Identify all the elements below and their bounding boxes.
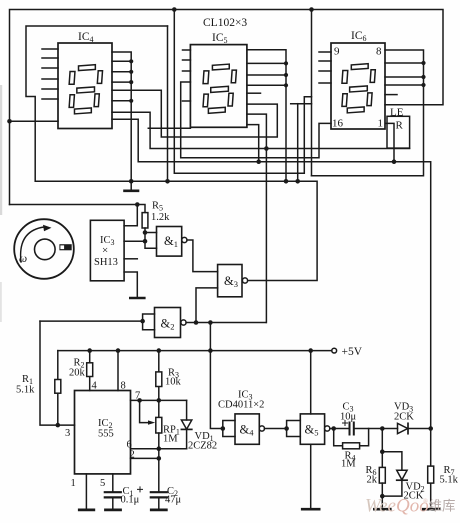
wire B4: IC5 left pin routed down, bus y=157.7, up to IC6 pin16 — [181, 82, 331, 158]
svg-text:1M: 1M — [341, 459, 356, 470]
wire gate2 input bracket — [143, 314, 155, 330]
wire R3 column — [158, 351, 160, 401]
wire gate5 supply from rail — [310, 351, 312, 414]
wire 555 pin8 column — [117, 351, 119, 391]
svg-text:1: 1 — [378, 118, 384, 130]
node dot IC4 pin 2 — [129, 59, 133, 63]
wire 555 pin3 line from gate2 input column to 555 — [40, 321, 75, 425]
svg-text:LE: LE — [390, 107, 404, 119]
wire gate2 input feed from 555 pin3 column — [40, 320, 143, 322]
wire +5V rail — [58, 350, 332, 352]
svg-text:IC4: IC4 — [78, 31, 94, 44]
svg-text:×: × — [102, 245, 108, 257]
sensor rotation arrow — [21, 227, 44, 262]
node dot pin2 to C2 column — [157, 456, 162, 461]
ground for R7 — [423, 508, 439, 511]
wire VD2 branch top — [382, 452, 402, 470]
wire IC5 lower right pin down to bus B5 — [247, 125, 259, 162]
svg-text:2CK: 2CK — [394, 412, 414, 423]
wire IC4 right pin 4 to column V_A — [112, 81, 131, 83]
wire IC3 pin d down to ground — [124, 272, 137, 298]
svg-text:&1: &1 — [164, 234, 178, 249]
wire R5 bottom to gate1 input node — [144, 228, 146, 233]
svg-text:1: 1 — [71, 478, 76, 489]
svg-text:&5: &5 — [305, 423, 319, 438]
svg-text:R: R — [396, 120, 404, 132]
IC3 SH13 box — [90, 220, 124, 280]
svg-text:2CZ82: 2CZ82 — [188, 441, 217, 452]
svg-text:3: 3 — [65, 428, 70, 439]
svg-text:IC5: IC5 — [212, 32, 228, 45]
display IC4 box — [58, 43, 112, 129]
wire feed line from left vertical to R5 — [10, 204, 138, 206]
node dot H3 top of V5 — [264, 146, 269, 151]
node dot R5 feed — [135, 202, 140, 207]
wire from left vertical to IC4 lowest left pin — [10, 120, 59, 122]
wire RP1 bottom to pin6 line — [158, 433, 160, 449]
wire pin line stub near IC6 — [291, 103, 312, 105]
wire gate5 ground column — [310, 444, 312, 508]
scan edge artifact left — [0, 85, 2, 215]
ground for IC3 — [130, 297, 144, 300]
gate4 input bracket — [223, 421, 235, 437]
node dot RP1 bottom on pin6 line — [157, 446, 162, 451]
svg-text:20k: 20k — [69, 368, 86, 379]
svg-text:4: 4 — [92, 381, 98, 392]
ground for gate5 — [302, 508, 319, 511]
wire gate5 output to C3 — [330, 428, 349, 430]
diode VD3 bar — [407, 423, 409, 433]
svg-text:5: 5 — [100, 478, 105, 489]
ground for C2 — [151, 508, 166, 511]
node dot bus B8 at x=131.2 with ground stem — [129, 179, 134, 184]
wire VD2 branch bottom — [382, 481, 402, 496]
wire R7 column — [430, 429, 432, 509]
wire B7: V2 column across bus y=175.8 up to IC6 pin 8 — [312, 50, 424, 176]
diode VD1 triangle — [181, 420, 191, 429]
svg-text:1M: 1M — [163, 434, 178, 445]
node dot VD2 branch top — [380, 449, 385, 454]
wire VD3 to right column node — [408, 428, 431, 430]
svg-text:16: 16 — [332, 118, 344, 130]
node dot IC6 pin d — [421, 83, 425, 87]
wire C2 to ground — [158, 497, 160, 509]
wire gate1 output to gate3 input a — [187, 240, 218, 272]
wire C3 to VD3 node — [354, 428, 398, 430]
capacitor C3 plates — [349, 423, 351, 435]
node junction dot on top bus feeding V1 — [172, 7, 177, 12]
nand gate U4 box — [235, 414, 259, 444]
node dot IC5 pin 4 — [284, 83, 288, 87]
svg-text:8: 8 — [121, 381, 126, 392]
node dot R4 branch — [331, 426, 336, 431]
wire IC5 right stub — [247, 92, 261, 94]
display IC5 digit 8 — [201, 64, 237, 113]
node dot IC6 pin b — [421, 61, 425, 65]
C3 polarity plus — [343, 421, 348, 426]
wire IC4 pin column V_A from top-right pin down to bus B8 — [112, 52, 131, 181]
resistor R6 body — [379, 467, 385, 483]
wire IC3 pin b to gate1 input node — [124, 240, 145, 242]
node junction dot on left vertical at IC4 pin row — [7, 119, 12, 124]
node dot pin7 arrow branch — [137, 398, 142, 403]
node dot B5 from IC5 lower pin — [256, 159, 261, 164]
wire R1 column from rail left end down through resistor to 555 pin3 line — [57, 351, 59, 426]
wire inner loop from IC4 area: top bus at y=26, left jog, long bus B8 to gate 3 output column — [26, 26, 317, 281]
sensor wheel outer circle — [14, 219, 74, 279]
display IC5 left pin stubs — [183, 50, 191, 101]
wire IC5 right pin 4 to V3 — [247, 84, 286, 86]
wire R6 top lead from VD3 node line — [381, 429, 383, 468]
svg-text:9: 9 — [334, 46, 340, 58]
capacitor C2 plates — [151, 491, 167, 493]
wire 555 pin2 line — [131, 457, 159, 459]
svg-text:ω: ω — [19, 253, 27, 265]
wire R2 column — [89, 351, 91, 391]
C2 polarity plus — [138, 487, 143, 492]
gate2 output bubble — [181, 320, 186, 325]
gate5 input bracket — [287, 421, 301, 437]
node dot VD2 branch bottom — [380, 494, 385, 499]
node dot rail to 555 pin8 — [116, 348, 121, 353]
+5V terminal circle — [332, 348, 337, 353]
node dot IC4 pin 3 — [129, 70, 133, 74]
diode VD1 bar — [181, 428, 191, 430]
wire R4 parallel loop — [334, 429, 369, 446]
resistor R2 body — [87, 363, 93, 377]
wire IC4 right pin 6 to column V_A — [112, 100, 131, 102]
svg-text:0.1μ: 0.1μ — [121, 495, 140, 506]
diode VD2 bar — [397, 479, 407, 481]
svg-text:5.1k: 5.1k — [16, 385, 35, 396]
node dot IC6 pin c — [421, 75, 425, 79]
diode VD1 column — [186, 400, 188, 448]
nand gate U1 box — [157, 227, 182, 257]
RP1 wiper arrow — [140, 400, 150, 422]
wire IC5 right pin 3 to V3 — [247, 74, 286, 76]
svg-text:CD4011×2: CD4011×2 — [218, 400, 264, 411]
wire IC3 pin a up to node on R5 feed line — [124, 205, 137, 226]
svg-text:&3: &3 — [224, 274, 238, 289]
gate1 output bubble — [182, 237, 187, 242]
svg-text:&4: &4 — [240, 423, 255, 438]
resistor R4 body — [343, 443, 360, 449]
wire W1: IC4 right pin 5 routed down along y=137 and up into IC5 left-side pin — [112, 90, 277, 137]
ground for R6 — [374, 508, 390, 511]
display IC4 digit 8 — [67, 65, 103, 114]
wire 555 pin5 to C1 — [112, 474, 114, 492]
wire IC4 right pin 2 to column V_A — [112, 60, 131, 62]
svg-text:555: 555 — [98, 429, 114, 440]
diode VD2 triangle — [397, 470, 407, 480]
gate3 output bubble — [242, 278, 247, 283]
latch R box beside IC6 — [387, 116, 410, 148]
svg-text:&2: &2 — [161, 317, 175, 332]
svg-text:IC6: IC6 — [351, 30, 367, 43]
svg-text:R5: R5 — [152, 201, 163, 213]
wire 555 pin1 to ground — [85, 474, 87, 510]
node dot B5 from IC6 pin1 — [392, 159, 397, 164]
node dot pin7 RP1 top — [157, 398, 162, 403]
node dot gate1 input b — [143, 239, 148, 244]
nand gate U5 box — [300, 414, 324, 444]
display IC4 left pin stubs — [42, 49, 58, 99]
node dot gate2 output branch down to gate4 — [208, 320, 213, 325]
wire 555 pin6 line — [131, 448, 187, 450]
wire gate4 output to gate5 input — [265, 428, 287, 430]
sensor wheel hub circle — [35, 239, 56, 260]
potentiometer RP1 body — [156, 417, 162, 433]
node dot rail to R2 — [87, 348, 92, 353]
wire 555 pin7 line to VD1 column — [131, 399, 187, 401]
node dot IC5 pin 3 — [284, 73, 288, 77]
node dot IC4 pin 6 — [129, 99, 133, 103]
timer 555 box — [75, 391, 131, 474]
node dot gate2 output branch to gate3 — [194, 320, 199, 325]
wire IC5 right pin 2 to V3 — [247, 62, 286, 64]
resistor R3 body — [156, 372, 162, 387]
node dot rail to gate5 supply — [308, 348, 313, 353]
wire column pin6-pin2-C2 — [158, 449, 160, 493]
wire gate2 output line to V5 corner — [186, 322, 266, 324]
nand gate U3 box — [218, 265, 242, 297]
wire IC4 right pin 3 to column V_A — [112, 71, 131, 73]
wire L2: top bus V1 down to bus y=173.2 and staircase up toward IC6 — [174, 10, 311, 174]
wire C1 to ground — [112, 497, 114, 509]
svg-text:CL102×3: CL102×3 — [203, 17, 247, 29]
node dot rail to R3 — [157, 348, 162, 353]
wire H3: IC4 right pin 7 routed down to bus y=148.5 across to latch R box — [112, 112, 410, 148]
display IC6 box — [331, 43, 385, 129]
node dot gate4 input — [221, 426, 226, 431]
wire V5: from IC5 right pin down through H3 to gate 2 output line — [247, 114, 266, 322]
svg-text:10k: 10k — [165, 377, 182, 388]
node dot R1 bottom on pin3 wire — [56, 423, 61, 428]
svg-text:+5V: +5V — [342, 346, 363, 358]
svg-text:®: ® — [423, 498, 428, 505]
resistor R5 body — [142, 213, 148, 228]
svg-text:维库: 维库 — [429, 499, 456, 514]
svg-text:1.2k: 1.2k — [151, 212, 170, 223]
svg-text:WeeQoo: WeeQoo — [365, 496, 429, 517]
svg-text:7: 7 — [135, 391, 140, 402]
diode VD3 triangle — [398, 423, 408, 433]
wire R5 feed line end into resistor top — [137, 205, 145, 213]
node dot V3 on bus B8 — [284, 179, 289, 184]
wire link between IC4 and IC5 bottom corners — [148, 127, 190, 129]
node junction dot on top bus feeding V2 — [309, 7, 314, 12]
svg-text:8: 8 — [376, 46, 382, 58]
svg-text:2k: 2k — [367, 475, 378, 486]
svg-text:10μ: 10μ — [340, 412, 357, 423]
node dot VD3 output on right column — [428, 426, 433, 431]
display IC6 digit 8 — [340, 64, 376, 113]
svg-text:5.1k: 5.1k — [440, 475, 459, 486]
node dot gate5 input — [284, 426, 289, 431]
node dot on +5V rail crossing — [208, 348, 213, 353]
node dot IC5 pin 2 — [284, 61, 288, 65]
display IC6 left pin stubs — [319, 52, 331, 83]
wire branch down to gate4 input crossing +5V rail — [210, 323, 222, 429]
wire outer loop: left vertical, top bus, right vertical down to LE pin of IC6 — [10, 10, 444, 205]
wire B5: IC4 right pin 8 routed down to bus y=161.7 then right and down to diode VD3 node — [112, 119, 431, 428]
node dot after C3 — [380, 426, 385, 431]
wire IC3 pin c stub — [124, 258, 137, 260]
wire V3: IC5 top right pin down to bus B8 — [247, 50, 286, 182]
wire W2 vertical from pin line down to bus B8 — [297, 104, 299, 182]
display IC5 box — [190, 45, 247, 128]
wire IC6 right pin bus dots — [385, 62, 424, 64]
node dot gate1 input a — [143, 230, 148, 235]
gate4 output bubble — [259, 426, 264, 431]
resistor R1 body — [55, 380, 61, 394]
ground for C1 — [106, 508, 121, 511]
gate5 output bubble — [325, 426, 330, 431]
capacitor C1 plates — [105, 491, 121, 493]
wire IC6 pin1 to bus B5 — [386, 123, 394, 161]
nand gate U2 box — [155, 308, 181, 338]
ground below bus B8 — [130, 181, 132, 190]
svg-text:47μ: 47μ — [165, 495, 182, 506]
node dot W2 on bus B8 — [295, 179, 300, 184]
svg-text:SH13: SH13 — [94, 257, 118, 268]
wire R6 bottom to ground — [381, 483, 383, 509]
resistor R7 body — [428, 466, 434, 483]
wire RP1 top lead — [158, 400, 160, 417]
wire vertical from inner loop top down to bus B8 — [167, 26, 169, 181]
wire branch up to gate3 input b — [196, 288, 218, 323]
svg-text:2: 2 — [130, 450, 135, 461]
wire gate1 input bracket — [145, 233, 157, 249]
wire V2 from top bus down to bus B7 toward IC6 pin column — [311, 10, 313, 176]
node dot IC4 pin 4 — [129, 80, 133, 84]
ground for 555 pin1 — [79, 508, 94, 511]
node dot gate2 input bracket — [140, 319, 145, 324]
node dot bus B8 at x=167.5 — [165, 179, 170, 184]
sensor wheel reflective mark — [59, 244, 71, 250]
wire IC6 unconnected stub — [385, 94, 397, 96]
